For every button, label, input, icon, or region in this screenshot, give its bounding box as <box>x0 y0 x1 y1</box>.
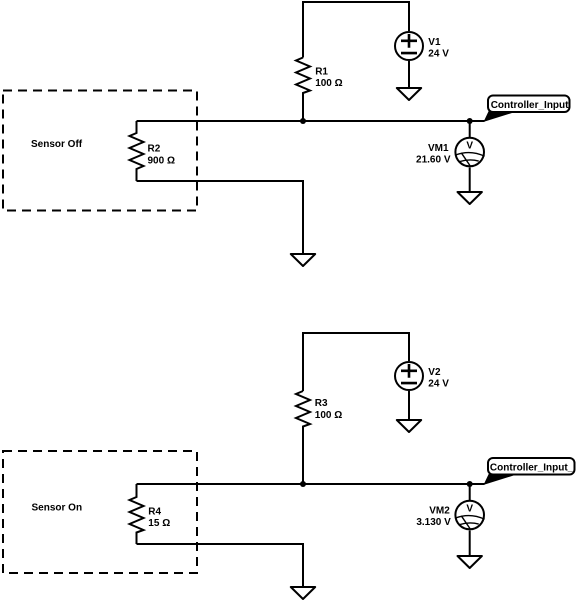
wire top rail V2-R3 <box>303 333 409 391</box>
label V1 value <box>428 48 449 59</box>
resistor R1 <box>296 58 310 122</box>
ground below R2 <box>291 254 315 266</box>
svg-text:Sensor Off: Sensor Off <box>31 139 83 150</box>
wire V1 to ground <box>408 61 410 88</box>
wire R2 to ground <box>137 181 304 254</box>
ground below V2 <box>397 420 421 432</box>
svg-text:R2: R2 <box>148 144 161 155</box>
svg-text:VM1: VM1 <box>428 143 449 154</box>
svg-text:3.130 V: 3.130 V <box>416 517 451 528</box>
label VM1 value <box>416 155 451 166</box>
svg-text:900 Ω: 900 Ω <box>148 155 175 166</box>
label R1 <box>315 67 328 78</box>
svg-text:Controller_Input: Controller_Input <box>491 100 569 111</box>
label R2 value <box>148 155 175 166</box>
voltage source V1 <box>395 32 423 60</box>
svg-text:24 V: 24 V <box>428 48 449 59</box>
wire top rail V1-R1 <box>303 2 409 58</box>
label Sensor Off <box>31 139 83 150</box>
resistor R4 <box>130 484 144 544</box>
label V2 value <box>428 378 449 389</box>
wire VM1 to ground <box>469 167 471 192</box>
junction dot R3 node <box>300 481 306 487</box>
ground below V1 <box>397 88 421 100</box>
voltmeter VM1 <box>455 121 484 166</box>
junction dot VM1 node <box>467 118 473 124</box>
wire VM2 to ground <box>469 530 471 556</box>
wire main node top circuit <box>137 120 485 122</box>
ground below VM1 <box>458 192 482 204</box>
svg-text:100 Ω: 100 Ω <box>315 78 342 89</box>
svg-text:V: V <box>466 141 473 152</box>
wire R4 to ground <box>137 544 304 587</box>
svg-text:R4: R4 <box>148 507 161 518</box>
label R4 value <box>148 518 170 529</box>
sensor on box <box>3 451 197 573</box>
resistor R2 <box>130 121 144 181</box>
voltage source V2 <box>395 362 423 390</box>
label R1 value <box>315 78 342 89</box>
svg-text:24 V: 24 V <box>428 378 449 389</box>
wire V2 to ground <box>408 391 410 420</box>
svg-text:VM2: VM2 <box>429 505 450 516</box>
svg-text:R1: R1 <box>315 67 328 78</box>
svg-text:21.60 V: 21.60 V <box>416 155 451 166</box>
svg-text:Sensor On: Sensor On <box>32 503 83 514</box>
label VM2 value <box>416 517 451 528</box>
svg-text:V2: V2 <box>428 367 441 378</box>
svg-text:V1: V1 <box>428 37 441 48</box>
label R2 <box>148 144 161 155</box>
label V2 <box>428 367 441 378</box>
node label Controller_Input_ <box>485 458 575 484</box>
ground below R4 <box>291 587 315 599</box>
svg-text:100 Ω: 100 Ω <box>315 410 342 421</box>
voltmeter VM2 <box>455 484 484 529</box>
junction dot VM2 node <box>467 481 473 487</box>
label R3 <box>315 398 328 409</box>
label VM1 <box>428 143 449 154</box>
label R3 value <box>315 410 342 421</box>
svg-text:V: V <box>466 504 473 515</box>
svg-text:Controller_Input_: Controller_Input_ <box>490 462 574 473</box>
node label Controller_Input <box>485 96 570 122</box>
sensor off box <box>3 91 197 211</box>
svg-text:15 Ω: 15 Ω <box>148 518 170 529</box>
label Sensor On <box>32 503 83 514</box>
label R4 <box>148 507 161 518</box>
label VM2 <box>429 505 450 516</box>
svg-text:R3: R3 <box>315 398 328 409</box>
wire main node bottom circuit <box>137 483 485 485</box>
ground below VM2 <box>458 556 482 568</box>
junction dot R1 node <box>300 118 306 124</box>
resistor R3 <box>296 391 310 484</box>
label V1 <box>428 37 441 48</box>
